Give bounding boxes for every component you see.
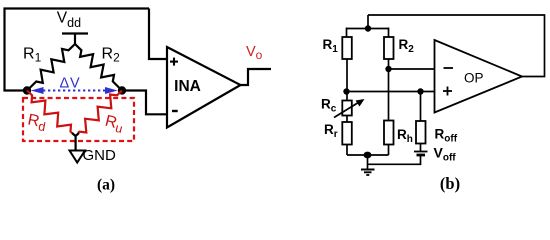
wire: bottom wire Rr-Rh (347, 154, 389, 156)
resistor Roff (box) (416, 121, 426, 144)
resistor R1 (bridge, zigzag) (27, 44, 75, 91)
wire: R2 branch top stub (388, 28, 390, 38)
wire: Rr bottom stub (346, 145, 348, 156)
wire: bridge bottom apex to ground (72, 133, 79, 151)
wire: top connector between R1 and R2 branches (347, 28, 389, 30)
pin + of INA (170, 58, 178, 66)
wire: Rc to Rr stub (346, 116, 348, 123)
resistor Rc (variable, box) (342, 101, 352, 116)
svg-text:Ru: Ru (103, 113, 126, 137)
svg-text:Vo: Vo (246, 44, 263, 62)
node: ground junction (364, 152, 372, 159)
ground GND (triangle) (70, 151, 86, 163)
wire: stub to Rc (346, 92, 348, 101)
svg-text:GND: GND (83, 147, 117, 164)
pin - of OP (444, 67, 454, 69)
wire: INA output (241, 69, 272, 85)
battery Voff (414, 152, 428, 156)
wire: stub from top wire to R1/R2 junction (367, 15, 369, 29)
power symbol Vdd bar (62, 34, 88, 45)
node: right bridge node (118, 86, 126, 94)
resistor Rd (red zigzag) (27, 91, 72, 134)
resistor R2 (box) (384, 37, 394, 59)
wire: battery bottom to ground wire (368, 156, 421, 165)
wire: R2 bottom down to Rh (crosses node line, no joint) (388, 59, 390, 121)
pin - of INA (172, 110, 178, 112)
wire: down to ground (367, 155, 369, 170)
resistor Rh (box) (384, 121, 394, 145)
svg-text:ΔV: ΔV (60, 75, 81, 91)
node: R2 / minus-input junction (385, 66, 391, 72)
node: Roff branch junction (417, 88, 423, 94)
svg-text:Rh: Rh (397, 127, 413, 145)
resistor R2 (bridge, zigzag) (75, 44, 122, 91)
wire: (b) feedback loop top wire from output (368, 15, 545, 77)
svg-text:Rr: Rr (324, 122, 338, 140)
pin + of OP (443, 87, 452, 96)
op-amp INA (instrumentation amplifier triangle) (167, 47, 241, 128)
annotation: red dashed box around Rd and Ru (23, 98, 134, 141)
svg-text:R1: R1 (323, 37, 339, 55)
svg-text:R1: R1 (23, 46, 42, 65)
resistor R1 (box) (342, 37, 352, 59)
svg-text:R2: R2 (399, 37, 415, 55)
svg-text:OP: OP (464, 71, 484, 86)
node: R1/R2 top junction (365, 25, 371, 31)
wire: Roff branch stub from node line (420, 92, 422, 122)
svg-text:Rc: Rc (321, 97, 337, 115)
wire: left loop from left bridge node up over the top (5, 9, 150, 91)
svg-text:(b): (b) (440, 174, 460, 193)
node: R1/Rc junction (343, 88, 349, 94)
wire: right bridge node to INA - input (122, 91, 168, 115)
resistor Rr (box) (342, 122, 352, 145)
annotation: blue dotted double arrow between bridge nodes (31, 87, 118, 94)
svg-text:Vdd: Vdd (57, 9, 81, 30)
wire: to op-amp minus input (389, 68, 435, 70)
wire: top wire down into INA + input (149, 9, 168, 60)
wire: Roff to battery stub (420, 144, 422, 152)
wire: R1 bottom to + node line (346, 59, 348, 92)
ground (earth symbol) (361, 170, 375, 176)
svg-text:R2: R2 (102, 46, 121, 65)
wire: Rh bottom stub (388, 145, 390, 156)
resistor Ru (red zigzag) (78, 91, 122, 134)
svg-text:Voff: Voff (434, 144, 457, 163)
wire: plus node line (347, 91, 435, 93)
node: left bridge node (23, 86, 31, 94)
svg-text:(a): (a) (97, 177, 115, 194)
op-amp OP (435, 40, 523, 113)
svg-text:INA: INA (174, 78, 201, 95)
svg-text:Roff: Roff (435, 127, 458, 145)
arrow of variable resistor Rc (334, 99, 365, 118)
wire: R1 branch top stub (346, 28, 348, 38)
